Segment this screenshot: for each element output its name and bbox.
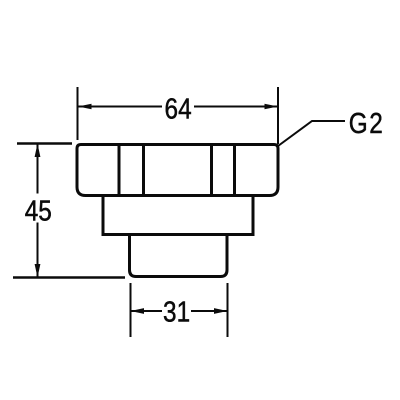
nut body outline (top hex section) bbox=[77, 145, 278, 196]
middle step outline bbox=[103, 196, 253, 235]
dimension line 64 right segment bbox=[194, 106, 278, 108]
arrowhead 64 left bbox=[78, 104, 92, 109]
dimension line 45 lower segment bbox=[37, 223, 39, 278]
hex flat line 1 bbox=[118, 146, 121, 194]
bottom step outline bbox=[130, 236, 228, 277]
svg-text:45: 45 bbox=[25, 195, 52, 227]
dimension line 64 left segment bbox=[78, 106, 162, 108]
hex flat line 3 bbox=[210, 146, 213, 194]
dimension line 31 right segment bbox=[191, 310, 227, 312]
leader line to thread callout G2 bbox=[278, 121, 345, 146]
dimension line 31 left segment bbox=[131, 310, 162, 312]
arrowhead 31 left bbox=[131, 308, 145, 314]
arrowhead 64 right bbox=[265, 104, 279, 109]
extension line top (dim 45) bbox=[17, 142, 72, 144]
arrowhead 31 right bbox=[214, 308, 228, 314]
extension line right (dim 64) bbox=[277, 87, 279, 144]
extension line left (dim 64) bbox=[77, 87, 79, 140]
extension line left (dim 31) bbox=[130, 283, 132, 337]
arrowhead 45 top bbox=[35, 144, 41, 158]
dimension line 45 upper segment bbox=[37, 144, 39, 194]
svg-text:31: 31 bbox=[163, 296, 190, 328]
extension line right (dim 31) bbox=[227, 283, 229, 337]
hex flat line 4 bbox=[233, 146, 236, 194]
extension line bottom (dim 45) bbox=[13, 276, 125, 278]
hex flat line 2 bbox=[142, 146, 145, 194]
arrowhead 45 bottom bbox=[35, 264, 41, 278]
svg-text:G2: G2 bbox=[349, 107, 385, 139]
svg-text:64: 64 bbox=[165, 93, 192, 125]
